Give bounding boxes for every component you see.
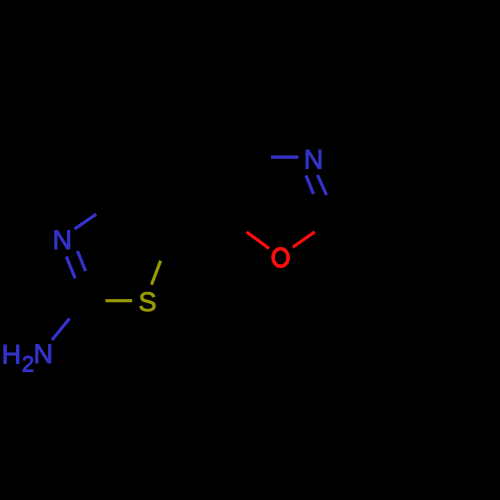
- wire: thiazole N3=C2 double bond inner line (N half): [77, 251, 85, 271]
- svg-text:H: H: [2, 339, 22, 369]
- amine label H2N: [2, 339, 53, 377]
- wire: thiazole N3=C2 double bond main line (N half): [66, 257, 75, 279]
- svg-text:2: 2: [22, 352, 34, 377]
- wire: thiazole S1-C5 bond (S half): [152, 261, 161, 285]
- node O1 of oxazole: [273, 249, 288, 267]
- wire: oxazole N3=C2 double bond inner line (N half): [306, 176, 314, 195]
- wire: oxazole N3-C4 bond (N half): [271, 156, 298, 159]
- wire: amine N to thiazole C2 (N-colored half): [52, 319, 70, 341]
- wire: oxazole O1-C5 bond (O half): [247, 232, 269, 248]
- wire: oxazole O1-C2 bond (O half): [293, 232, 315, 247]
- svg-text:N: N: [304, 144, 324, 174]
- svg-text:N: N: [52, 225, 72, 255]
- wire: thiazole S1-C2 bond (S half): [105, 299, 132, 302]
- wire: oxazole N3=C2 double bond main line (N half): [318, 175, 327, 195]
- svg-text:S: S: [138, 287, 156, 317]
- wire: thiazole N3-C4 bond (N half): [75, 214, 97, 229]
- svg-text:N: N: [34, 339, 54, 369]
